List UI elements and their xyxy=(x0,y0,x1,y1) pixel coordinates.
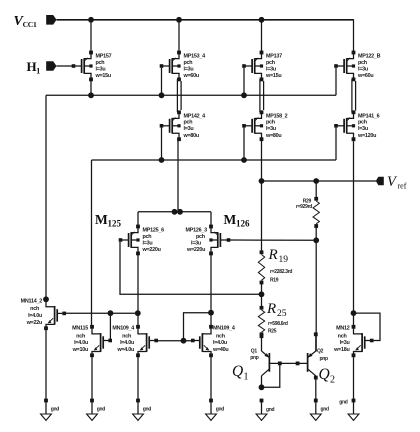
node rail3-MP158_2 gate xyxy=(241,157,247,163)
svg-text:pch: pch xyxy=(358,60,367,66)
svg-text:l=3u: l=3u xyxy=(96,66,106,72)
svg-text:l=4.0u: l=4.0u xyxy=(28,313,42,319)
svg-text:19: 19 xyxy=(279,255,289,265)
wire bias rail2 xyxy=(46,94,336,96)
svg-text:MN109_4: MN109_4 xyxy=(213,326,235,332)
pin VCC1 xyxy=(46,15,56,25)
svg-text:w=18u: w=18u xyxy=(333,347,349,353)
wire bias rail3 xyxy=(92,159,337,161)
svg-text:nch: nch xyxy=(122,333,131,339)
svg-text:w=80u: w=80u xyxy=(265,133,281,139)
svg-text:gnd: gnd xyxy=(143,407,152,413)
wire MP142_4 gate drop xyxy=(161,128,163,160)
svg-text:r=929rd: r=929rd xyxy=(296,204,312,210)
ground MN12 xyxy=(348,399,359,421)
svg-text:CC1: CC1 xyxy=(23,20,37,29)
svg-text:l=4.0u: l=4.0u xyxy=(120,340,134,346)
wire rail3 down to MN115 drain xyxy=(91,160,93,327)
svg-text:MP153_4: MP153_4 xyxy=(184,54,206,60)
wire H1 to MP157 gate xyxy=(57,65,74,67)
transistor MN109_4 xyxy=(112,325,158,357)
svg-text:nch: nch xyxy=(216,333,225,339)
wire MN109_4 source to ground xyxy=(137,355,139,400)
svg-text:pch: pch xyxy=(143,234,152,240)
svg-text:l=4.0u: l=4.0u xyxy=(213,340,227,346)
wire M125 source drop xyxy=(137,212,139,227)
wire MP157 drain to rail2 xyxy=(90,79,92,95)
wire M125 gate to R19/R25 node xyxy=(120,242,262,294)
svg-text:MP125_6: MP125_6 xyxy=(143,228,165,234)
svg-text:MN115: MN115 xyxy=(72,326,88,332)
svg-text:l=3u: l=3u xyxy=(358,126,368,132)
transistor MP142_4 xyxy=(160,110,205,141)
node M126 drain-MN109_4b xyxy=(208,310,214,316)
svg-text:R: R xyxy=(268,247,278,263)
node gate bus-MN115 xyxy=(108,310,114,316)
svg-text:nch: nch xyxy=(30,306,39,312)
svg-text:ref: ref xyxy=(398,182,407,191)
transistor MN115 xyxy=(72,325,112,357)
svg-text:126: 126 xyxy=(236,219,250,229)
svg-text:l=3u: l=3u xyxy=(340,340,350,346)
node rail2-MP157 drain xyxy=(88,92,94,98)
svg-text:M: M xyxy=(95,212,108,227)
svg-text:MP122_B: MP122_B xyxy=(358,54,381,60)
svg-text:MP141_6: MP141_6 xyxy=(358,113,380,119)
node gate bus-M125 drain xyxy=(135,310,141,316)
svg-text:MP142_4: MP142_4 xyxy=(184,113,206,119)
svg-text:w=220u: w=220u xyxy=(142,247,161,253)
node R19-R25-M125 gate xyxy=(259,291,265,297)
svg-text:gnd: gnd xyxy=(51,407,60,413)
transistor MN114_2 xyxy=(21,298,66,330)
svg-text:MP137: MP137 xyxy=(266,54,282,60)
svg-text:nch: nch xyxy=(338,333,347,339)
svg-text:w=15u: w=15u xyxy=(265,73,281,79)
svg-text:Q: Q xyxy=(232,363,243,380)
svg-text:l=3u: l=3u xyxy=(184,66,194,72)
svg-text:Q1: Q1 xyxy=(251,349,258,355)
svg-text:gnd: gnd xyxy=(97,407,106,413)
svg-text:2: 2 xyxy=(330,375,335,386)
wire MN114 gate bus xyxy=(64,312,138,314)
node rail1-MP157 xyxy=(88,17,94,23)
ground MN115 xyxy=(87,399,98,421)
node rail3-MP142_4 gate xyxy=(159,157,165,163)
node rail2-MP153_4 gate xyxy=(159,92,165,98)
node R29-M126 gate xyxy=(313,237,319,243)
svg-text:pch: pch xyxy=(266,120,275,126)
svg-text:l=3u: l=3u xyxy=(184,126,194,132)
svg-text:l=3u: l=3u xyxy=(266,126,276,132)
node tail junction xyxy=(172,209,178,215)
svg-text:w=120u: w=120u xyxy=(357,133,376,139)
svg-text:w=60u: w=60u xyxy=(183,73,199,79)
wire diff pair tail xyxy=(138,211,211,213)
transistor MN109_4 b xyxy=(191,325,235,357)
svg-text:w=80u: w=80u xyxy=(183,133,199,139)
transistor MP141_6 xyxy=(334,110,379,141)
transistor MP125_6 (M125) xyxy=(119,225,164,256)
svg-text:w=15u: w=15u xyxy=(95,73,111,79)
svg-text:25: 25 xyxy=(277,309,287,319)
ground MN109_4b xyxy=(206,399,217,421)
wire Vref node down to R19 xyxy=(261,181,263,252)
node MN114 drain xyxy=(43,296,49,302)
svg-text:MP126_3: MP126_3 xyxy=(186,228,208,234)
svg-text:l=3u: l=3u xyxy=(266,66,276,72)
ground MN114 xyxy=(41,399,52,421)
wire Vref xyxy=(262,180,377,182)
wire MP153_4 source to rail xyxy=(178,20,180,53)
node rail1-MP153_4 xyxy=(176,17,182,23)
resistor R25 xyxy=(258,306,264,336)
wire M125 drain down xyxy=(137,253,139,326)
wire MP142_4 drain to diff pair tail xyxy=(177,139,179,212)
svg-text:w=4.0u: w=4.0u xyxy=(116,347,134,353)
transistor MP126_3 (M126) xyxy=(186,225,231,256)
transistor MP158_2 xyxy=(242,110,287,141)
svg-text:w=60u: w=60u xyxy=(357,73,373,79)
wire MN115 gate riser xyxy=(109,313,111,340)
svg-text:l=4.0u: l=4.0u xyxy=(74,340,88,346)
svg-text:MP158_2: MP158_2 xyxy=(266,113,288,119)
svg-text:r=598.6rd: r=598.6rd xyxy=(268,321,288,327)
svg-text:MN109_4: MN109_4 xyxy=(112,326,134,332)
svg-text:1: 1 xyxy=(36,67,40,76)
wire gate link riser xyxy=(184,313,212,341)
svg-text:l=3u: l=3u xyxy=(358,66,368,72)
svg-text:MN114_2: MN114_2 xyxy=(21,298,43,304)
transistor MP153_4 xyxy=(160,51,205,82)
wire rail2 down to MN114 drain xyxy=(45,95,47,299)
ground Q1 collector xyxy=(256,399,267,421)
wire MP153_4 drain to MP142_4 source xyxy=(176,79,178,112)
resistor R19 xyxy=(258,250,264,284)
svg-text:pch: pch xyxy=(196,234,205,240)
svg-text:pch: pch xyxy=(184,60,193,66)
transistor MP137 xyxy=(242,51,282,82)
svg-text:Q2: Q2 xyxy=(317,349,324,355)
wire MP137 source to rail xyxy=(261,20,263,53)
transistor MN12 xyxy=(333,325,373,357)
svg-text:l=3u: l=3u xyxy=(191,240,201,246)
node gate link xyxy=(181,338,187,344)
wire M126 source drop xyxy=(210,212,212,227)
wire M126 gate to R29 bottom node xyxy=(229,239,316,241)
transistor MP157 xyxy=(72,51,112,82)
svg-text:pnp: pnp xyxy=(320,356,329,362)
svg-text:MP157: MP157 xyxy=(96,54,112,60)
wire MN115 source to ground xyxy=(91,355,93,400)
wire Q1 base to Q2 base xyxy=(269,362,307,364)
wire VCC1 rail xyxy=(57,19,354,21)
terminal Q1 base xyxy=(278,362,282,366)
node Vref-MP158_2 xyxy=(259,178,265,184)
svg-text:125: 125 xyxy=(108,219,122,229)
svg-text:MN12: MN12 xyxy=(336,326,350,332)
svg-text:nch: nch xyxy=(76,333,85,339)
svg-text:r=2282.3rd: r=2282.3rd xyxy=(270,269,292,275)
transistor Q2 pnp xyxy=(308,332,318,400)
svg-text:Q: Q xyxy=(319,366,330,383)
wire MP122_B source to rail xyxy=(353,19,355,52)
wire MP157 source to rail xyxy=(90,20,92,53)
svg-text:M: M xyxy=(224,212,237,227)
svg-text:w=22u: w=22u xyxy=(26,320,42,326)
svg-text:l=3u: l=3u xyxy=(143,240,153,246)
ground MN109_4 xyxy=(133,399,144,421)
svg-text:gnd: gnd xyxy=(216,407,225,413)
wire MP141_6 drain down to MN12 drain xyxy=(353,139,355,326)
svg-text:gnd: gnd xyxy=(321,407,330,413)
wire MP158_2 gate drop xyxy=(243,128,245,160)
pin Vref xyxy=(376,177,384,186)
wire Q1 base-collector tie xyxy=(262,363,280,387)
resistor R29 xyxy=(313,197,319,228)
wire MP122_B gate drop xyxy=(335,68,337,96)
svg-text:w=40u: w=40u xyxy=(212,347,228,353)
wire R29 bottom xyxy=(315,226,317,240)
svg-text:R25: R25 xyxy=(268,329,277,335)
svg-text:R19: R19 xyxy=(270,278,279,284)
svg-text:gnd: gnd xyxy=(266,407,275,413)
pin H1 xyxy=(46,61,56,71)
svg-text:pch: pch xyxy=(96,60,105,66)
wire MP137 gate drop xyxy=(243,68,245,96)
terminal Q2 base xyxy=(296,362,300,366)
node rail1-MP137 xyxy=(259,17,265,23)
wire MP158_2 drain to Vref node xyxy=(261,139,263,181)
wire MP141_6 gate drop xyxy=(335,128,337,160)
wire MP137 drain to MP158_2 source xyxy=(259,79,261,112)
transistor Q1 pnp xyxy=(260,334,270,387)
node MN12 drain loop xyxy=(351,310,357,316)
node Q1 collector xyxy=(259,384,265,390)
wire MN114 source to ground xyxy=(45,328,47,400)
svg-text:pnp: pnp xyxy=(250,355,259,361)
svg-text:pch: pch xyxy=(184,120,193,126)
wire M126 drain down xyxy=(210,253,212,326)
ground Q2 collector xyxy=(310,399,321,421)
svg-text:w=10u: w=10u xyxy=(72,347,88,353)
wire R19 to R25 xyxy=(261,283,263,308)
transistor MP122_B xyxy=(334,51,380,82)
node Vref-R29 xyxy=(313,178,319,184)
wire MP153_4 gate drop xyxy=(161,68,163,96)
svg-text:pch: pch xyxy=(266,60,275,66)
wire MP122_B drain to MP141_6 source xyxy=(351,79,353,112)
svg-text:1: 1 xyxy=(244,372,249,383)
wire MN109_4b source to ground xyxy=(210,355,212,400)
wire R29 top xyxy=(315,181,317,199)
svg-text:pch: pch xyxy=(358,120,367,126)
svg-text:R: R xyxy=(266,301,276,317)
wire R29 node down to Q2 emitter xyxy=(315,240,317,351)
node rail2-MP137 gate xyxy=(241,92,247,98)
svg-text:gnd: gnd xyxy=(339,400,348,406)
svg-text:H: H xyxy=(27,59,37,74)
svg-text:w=220u: w=220u xyxy=(186,247,205,253)
wire MN12 gate loop xyxy=(354,313,381,340)
wire MN12 source to ground xyxy=(353,355,355,400)
wire MN109_4 gate to MN109_4b gate xyxy=(156,340,192,342)
